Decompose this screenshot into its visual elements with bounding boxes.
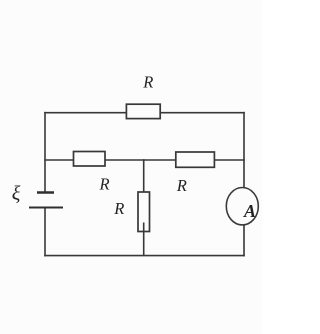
ammeter A circle xyxy=(226,188,258,225)
resistor R4 middle vertical xyxy=(138,192,150,232)
resistor R2 left middle xyxy=(74,152,106,167)
svg-text:R: R xyxy=(142,73,153,92)
wire right vertical lower xyxy=(243,225,245,256)
wire left vertical upper xyxy=(44,113,46,193)
resistor R1 top xyxy=(126,104,160,118)
wire middle vertical lower (overlaps resistor R4 bottom) xyxy=(143,223,145,256)
battery cell short plate xyxy=(37,191,54,194)
wire top xyxy=(45,112,244,114)
svg-text:ξ: ξ xyxy=(12,183,21,205)
resistor R3 right middle xyxy=(176,152,215,167)
wire middle vertical upper xyxy=(143,160,145,192)
wire left vertical lower xyxy=(44,208,46,256)
wire middle row xyxy=(45,159,244,161)
wire bottom xyxy=(45,255,244,257)
svg-text:R: R xyxy=(99,175,110,194)
svg-text:R: R xyxy=(176,176,187,195)
battery cell long plate xyxy=(29,207,63,209)
wire right vertical upper xyxy=(243,113,245,188)
svg-text:A: A xyxy=(243,201,256,221)
svg-text:R: R xyxy=(113,199,124,218)
